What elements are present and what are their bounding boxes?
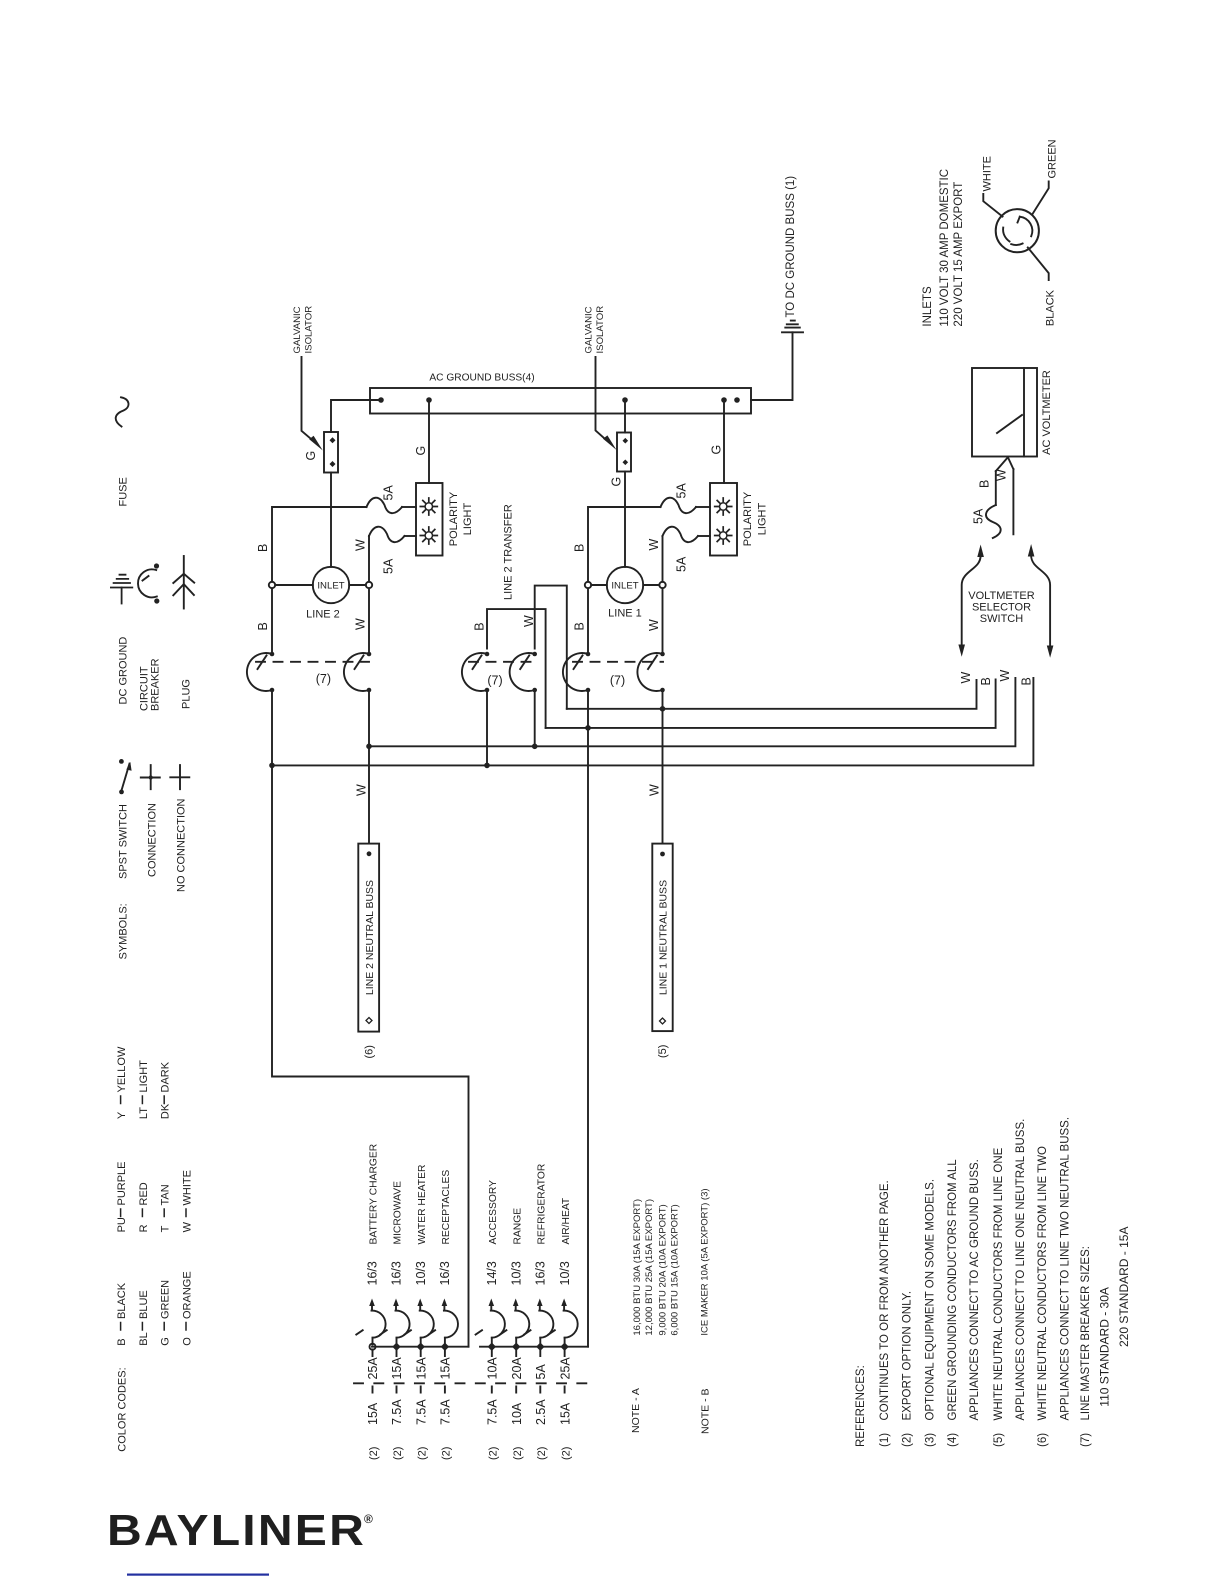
svg-text:2.5A: 2.5A <box>534 1399 548 1425</box>
lead BLACK <box>1028 248 1049 281</box>
fuse F1 <box>367 498 403 513</box>
svg-text:DC GROUND: DC GROUND <box>117 637 129 705</box>
AC ground buss(4) <box>370 388 751 414</box>
svg-text:LINE 1 NEUTRAL BUSS: LINE 1 NEUTRAL BUSS <box>658 880 670 995</box>
node dots on buses <box>269 706 665 768</box>
svg-text:G: G <box>414 446 428 456</box>
svg-text:W: W <box>354 539 368 551</box>
bus line D (B line2) <box>272 678 1033 765</box>
svg-text:W: W <box>647 619 661 631</box>
svg-text:110 VOLT 30 AMP DOMESTIC: 110 VOLT 30 AMP DOMESTIC <box>939 169 951 327</box>
inlet LINE 2 terminals <box>269 582 275 588</box>
svg-text:20A: 20A <box>510 1357 524 1380</box>
svg-text:GREEN GROUNDING CONDUCTORS FRO: GREEN GROUNDING CONDUCTORS FROM ALL <box>947 1159 959 1421</box>
svg-text:110 STANDARD - 30A: 110 STANDARD - 30A <box>1098 1287 1112 1407</box>
svg-text:TO DC GROUND BUSS (1): TO DC GROUND BUSS (1) <box>785 176 797 318</box>
svg-text:CONTINUES TO OR FROM ANOTHER P: CONTINUES TO OR FROM ANOTHER PAGE. <box>879 1180 891 1420</box>
svg-text:ISOLATOR: ISOLATOR <box>595 306 606 354</box>
svg-text:W: W <box>522 615 536 627</box>
svg-text:WHITE: WHITE <box>181 1170 193 1205</box>
svg-text:SWITCH: SWITCH <box>980 613 1023 625</box>
svg-text:16/3: 16/3 <box>534 1261 548 1285</box>
ground symbol to DC ground buss <box>782 321 803 333</box>
svg-text:B: B <box>573 544 587 552</box>
breaker microwave <box>380 1299 409 1345</box>
wire G: buss to polarity light 1 <box>428 400 430 483</box>
wire: isolator2 to buss <box>624 400 626 433</box>
svg-text:NO CONNECTION: NO CONNECTION <box>175 798 187 892</box>
svg-text:NOTE - A: NOTE - A <box>630 1388 642 1433</box>
breaker CB-Bt <box>462 652 489 693</box>
manifold taps <box>370 1344 376 1350</box>
svg-text:(1): (1) <box>879 1433 891 1447</box>
svg-text:AC GROUND BUSS(4): AC GROUND BUSS(4) <box>429 373 534 384</box>
svg-text:(2): (2) <box>902 1433 914 1447</box>
wire B from voltmeter <box>995 471 997 505</box>
wire B line1 lower <box>587 588 589 654</box>
svg-text:GALVANIC: GALVANIC <box>584 306 595 353</box>
breaker CB-B1 <box>563 652 590 693</box>
svg-text:®: ® <box>364 1512 373 1526</box>
galvanic isolator 2 <box>617 433 631 472</box>
svg-text:10A: 10A <box>510 1402 524 1425</box>
svg-text:5A: 5A <box>382 485 396 501</box>
svg-text:W: W <box>647 539 661 551</box>
svg-text:PU: PU <box>116 1217 128 1232</box>
svg-text:W: W <box>354 784 368 796</box>
svg-text:WHITE: WHITE <box>982 156 994 191</box>
svg-text:(6): (6) <box>1037 1433 1049 1447</box>
svg-text:B: B <box>978 480 992 488</box>
galvanic isolator 1 <box>324 432 338 473</box>
load manifold group 1 <box>372 1346 469 1348</box>
wire: isolator2 to inlet line1 <box>624 472 626 567</box>
load name labels <box>369 1144 572 1245</box>
svg-text:PURPLE: PURPLE <box>116 1161 128 1205</box>
svg-text:16/3: 16/3 <box>390 1261 404 1285</box>
svg-text:ACCESSORY: ACCESSORY <box>488 1180 499 1245</box>
svg-text:T: T <box>160 1225 172 1232</box>
svg-text:WHITE NEUTRAL CONDUCTORS FROM: WHITE NEUTRAL CONDUCTORS FROM LINE TWO <box>1037 1146 1049 1421</box>
svg-text:APPLIANCES CONNECT TO LINE ONE: APPLIANCES CONNECT TO LINE ONE NEUTRAL B… <box>1015 1119 1027 1421</box>
svg-text:RECEPTACLES: RECEPTACLES <box>441 1170 452 1245</box>
svg-text:G: G <box>304 451 318 461</box>
svg-text:SYMBOLS:: SYMBOLS: <box>117 903 129 959</box>
svg-text:INLET: INLET <box>611 581 638 592</box>
leader arrow galvanic isolator 2 <box>596 357 617 450</box>
svg-text:WATER HEATER: WATER HEATER <box>417 1165 428 1245</box>
bus line C (W line2) <box>369 678 1015 746</box>
svg-text:BATTERY CHARGER: BATTERY CHARGER <box>369 1144 380 1245</box>
svg-text:10/3: 10/3 <box>509 1261 523 1285</box>
svg-text:GREEN: GREEN <box>160 1280 172 1319</box>
svg-text:G: G <box>610 477 624 487</box>
lamp L1a <box>420 498 437 515</box>
legend: no connection symbol <box>170 765 189 789</box>
line 2 neutral buss <box>358 844 379 1032</box>
breaker battery charger <box>356 1299 385 1345</box>
svg-text:APPLIANCES CONNECT TO LINE TWO: APPLIANCES CONNECT TO LINE TWO NEUTRAL B… <box>1059 1117 1071 1421</box>
lead WHITE <box>983 194 1002 217</box>
amp ratings row 2 <box>366 1399 572 1425</box>
svg-text:BREAKER: BREAKER <box>150 658 162 711</box>
wire B line1 upper + fuse to polarity light 2 <box>588 507 661 582</box>
svg-text:B: B <box>256 544 270 552</box>
color codes group 1 <box>116 1271 193 1345</box>
svg-text:O: O <box>181 1337 193 1346</box>
svg-text:16,000 BTU 30A (15A EXPORT): 16,000 BTU 30A (15A EXPORT) <box>632 1199 643 1336</box>
svg-text:POLARITY: POLARITY <box>742 491 754 546</box>
line 1 neutral buss <box>652 844 672 1032</box>
bus line B (B line1) <box>546 680 996 728</box>
breaker accessory <box>476 1299 505 1345</box>
NOTE - B block <box>699 1188 711 1434</box>
svg-text:16/3: 16/3 <box>438 1261 452 1285</box>
svg-text:(7): (7) <box>316 672 331 686</box>
svg-text:INLET: INLET <box>317 581 344 592</box>
wire transfer W upper <box>535 586 567 709</box>
svg-text:REFRIGERATOR: REFRIGERATOR <box>537 1164 548 1245</box>
svg-text:B: B <box>116 1338 128 1345</box>
svg-text:(2): (2) <box>560 1447 572 1460</box>
svg-text:(7): (7) <box>610 674 625 688</box>
svg-text:W: W <box>354 618 368 630</box>
color code dashes group2 <box>121 1209 186 1217</box>
svg-text:PLUG: PLUG <box>181 679 193 709</box>
wire transfer B lower to bus D <box>486 690 488 765</box>
wire transfer B upper <box>487 609 546 728</box>
svg-text:BL: BL <box>138 1332 150 1345</box>
svg-text:REFERENCES:: REFERENCES: <box>855 1365 867 1447</box>
svg-text:OPTIONAL EQUIPMENT ON SOME MOD: OPTIONAL EQUIPMENT ON SOME MODELS. <box>925 1179 937 1421</box>
breaker CB-Wt <box>510 652 537 693</box>
lamp L2a <box>715 498 732 515</box>
svg-text:(2): (2) <box>392 1447 404 1460</box>
svg-text:10A: 10A <box>486 1357 500 1380</box>
svg-text:B: B <box>979 677 993 685</box>
svg-text:BLUE: BLUE <box>138 1290 150 1319</box>
svg-text:5A: 5A <box>675 556 689 572</box>
svg-text:5A: 5A <box>382 558 396 574</box>
svg-text:220 VOLT 15 AMP EXPORT: 220 VOLT 15 AMP EXPORT <box>953 182 965 327</box>
fuse F3 <box>661 498 697 513</box>
breaker range <box>500 1299 529 1345</box>
svg-text:10/3: 10/3 <box>414 1261 428 1285</box>
svg-text:6,000 BTU 15A (10A EXPORT): 6,000 BTU 15A (10A EXPORT) <box>670 1204 681 1335</box>
svg-text:EXPORT OPTION ONLY.: EXPORT OPTION ONLY. <box>902 1291 914 1421</box>
svg-text:(2): (2) <box>416 1447 428 1460</box>
svg-text:ICE MAKER 10A (5A EXPORT) (3): ICE MAKER 10A (5A EXPORT) (3) <box>699 1188 710 1335</box>
svg-text:LINE MASTER BREAKER SIZES:: LINE MASTER BREAKER SIZES: <box>1080 1246 1092 1420</box>
svg-text:LT: LT <box>138 1107 150 1119</box>
wire: isolator1 to buss <box>331 400 378 432</box>
svg-text:BLACK: BLACK <box>1045 289 1057 326</box>
svg-text:GALVANIC: GALVANIC <box>292 306 303 353</box>
svg-text:9,000 BTU 20A (10A EXPORT): 9,000 BTU 20A (10A EXPORT) <box>657 1204 668 1335</box>
svg-text:RED: RED <box>138 1182 150 1205</box>
svg-text:GREEN: GREEN <box>1047 139 1059 178</box>
svg-text:ISOLATOR: ISOLATOR <box>304 306 315 354</box>
svg-text:10/3: 10/3 <box>558 1261 572 1285</box>
svg-text:SELECTOR: SELECTOR <box>972 602 1031 614</box>
inlet connector inner slots <box>1003 217 1032 245</box>
svg-text:CONNECTION: CONNECTION <box>146 803 158 877</box>
svg-text:VOLTMETER: VOLTMETER <box>968 590 1034 602</box>
svg-text:LIGHT: LIGHT <box>757 503 769 536</box>
svg-text:SPST SWITCH: SPST SWITCH <box>117 804 129 879</box>
svg-text:(2): (2) <box>488 1447 500 1460</box>
fuse F2 <box>369 527 405 542</box>
svg-text:5A: 5A <box>971 508 985 524</box>
svg-text:G: G <box>160 1337 172 1346</box>
breaker refrigerator <box>524 1299 553 1345</box>
svg-text:BAYLINER: BAYLINER <box>107 1506 366 1555</box>
svg-text:FUSE: FUSE <box>117 477 129 506</box>
svg-text:(7): (7) <box>487 674 502 688</box>
svg-text:14/3: 14/3 <box>485 1261 499 1285</box>
svg-text:25A: 25A <box>366 1357 380 1380</box>
color code dashes group1 <box>121 1323 186 1331</box>
breaker CB-W2 <box>344 652 371 693</box>
load manifold group 2 <box>480 1346 588 1348</box>
vertical tie dashes at load columns <box>373 1350 565 1393</box>
svg-text:15A: 15A <box>558 1402 572 1425</box>
wire W line2 upper + fuse 5A to polarity light 1 <box>368 536 370 582</box>
color codes group 2 <box>116 1161 193 1232</box>
legend: fuse symbol <box>116 397 129 426</box>
svg-text:(5): (5) <box>993 1433 1005 1447</box>
legend: SPST switch symbol <box>119 759 132 794</box>
svg-text:(5): (5) <box>657 1045 669 1058</box>
wire W from voltmeter <box>1012 469 1014 534</box>
wire: ground lead from buss <box>751 332 793 400</box>
blue footer line <box>127 1574 269 1576</box>
wire W2 to line2 neutral buss <box>368 690 370 844</box>
inlet LINE 2 receptacle <box>313 567 349 603</box>
leader arrow galvanic isolator 1 <box>302 357 323 451</box>
svg-text:INLETS: INLETS <box>922 286 934 327</box>
svg-text:APPLIANCES CONNECT TO AC GROUN: APPLIANCES CONNECT TO AC GROUND BUSS. <box>969 1159 981 1420</box>
svg-text:AIR/HEAT: AIR/HEAT <box>561 1197 572 1244</box>
node: buss junction dots <box>378 397 740 403</box>
polarity light box 2 <box>710 483 737 556</box>
shore inlet connector circle <box>996 209 1039 252</box>
svg-text:NOTE - B: NOTE - B <box>700 1388 712 1434</box>
wire B1 feed to load group 2 <box>587 690 589 1347</box>
wire B line2 lower <box>271 588 273 654</box>
NOTE - A block <box>630 1199 681 1433</box>
svg-text:BLACK: BLACK <box>116 1282 128 1319</box>
dashed breaker tie lines <box>256 661 663 663</box>
selector switch arrows top <box>977 545 984 558</box>
svg-text:W: W <box>995 469 1009 481</box>
wire W line2 lower <box>368 588 370 654</box>
legend: connection symbol <box>141 765 160 789</box>
svg-text:(3): (3) <box>925 1433 937 1447</box>
color code dashes group3 <box>121 1096 165 1104</box>
svg-text:LINE 2: LINE 2 <box>306 609 340 621</box>
legend: plug symbol <box>173 556 194 609</box>
svg-text:15A: 15A <box>366 1402 380 1425</box>
legend: circuit breaker symbol <box>138 563 159 603</box>
selector switch wire left <box>962 556 981 646</box>
svg-text:TAN: TAN <box>160 1184 172 1205</box>
wire W1 to line1 neutral buss <box>662 690 664 844</box>
svg-text:RANGE: RANGE <box>512 1208 523 1245</box>
svg-text:7.5A: 7.5A <box>414 1399 428 1425</box>
svg-text:AC VOLTMETER: AC VOLTMETER <box>1041 370 1053 455</box>
REFERENCES block <box>855 1117 1131 1447</box>
wire G: buss to polarity light 2 <box>723 400 725 483</box>
svg-text:WHITE NEUTRAL CONDUCTORS FROM: WHITE NEUTRAL CONDUCTORS FROM LINE ONE <box>993 1147 1005 1420</box>
svg-text:POLARITY: POLARITY <box>448 491 460 546</box>
svg-text:W: W <box>959 672 973 684</box>
wire W line1 upper + fuse to polarity light 2 <box>662 536 664 582</box>
svg-text:(2): (2) <box>441 1447 453 1460</box>
lamp L2b <box>715 527 732 544</box>
svg-text:LIGHT: LIGHT <box>462 503 474 536</box>
bus line A (W line1) <box>567 680 977 709</box>
load gauge labels <box>366 1261 572 1285</box>
wire W line1 lower <box>662 588 664 654</box>
svg-text:(7): (7) <box>1080 1433 1092 1447</box>
svg-text:LINE 2 NEUTRAL BUSS: LINE 2 NEUTRAL BUSS <box>364 880 376 995</box>
svg-text:7.5A: 7.5A <box>390 1399 404 1425</box>
svg-text:7.5A: 7.5A <box>486 1399 500 1425</box>
svg-text:Y: Y <box>116 1111 128 1119</box>
lamp L1b <box>420 527 437 544</box>
svg-text:R: R <box>138 1224 150 1232</box>
wire transfer W lower to bus C <box>534 690 536 746</box>
svg-text:7.5A: 7.5A <box>439 1399 453 1425</box>
svg-text:DARK: DARK <box>160 1061 172 1092</box>
breaker water heater <box>405 1299 434 1345</box>
svg-text:MICROWAVE: MICROWAVE <box>393 1181 404 1245</box>
selector switch wire right <box>1031 556 1050 647</box>
svg-text:5A: 5A <box>675 483 689 499</box>
svg-text:(6): (6) <box>363 1045 375 1058</box>
svg-text:W: W <box>181 1221 193 1232</box>
svg-text:ORANGE: ORANGE <box>181 1271 193 1319</box>
svg-text:(4): (4) <box>947 1433 959 1447</box>
breaker receptacles <box>429 1299 458 1345</box>
wire B2 feed to load group 1 <box>272 690 469 1347</box>
breaker CB-W1 <box>637 652 664 693</box>
svg-text:15A: 15A <box>390 1357 404 1380</box>
svg-text:(2): (2) <box>368 1447 380 1460</box>
svg-text:W: W <box>648 784 662 796</box>
lead GREEN <box>1032 181 1049 214</box>
voltmeter needle <box>997 415 1022 433</box>
svg-text:LINE 2 TRANSFER: LINE 2 TRANSFER <box>503 504 515 600</box>
amp ratings row 1 <box>366 1357 572 1380</box>
svg-text:DK: DK <box>160 1103 172 1119</box>
voltmeter plug arch <box>996 457 1014 471</box>
fuse F4 <box>663 527 699 542</box>
svg-text:G: G <box>710 445 724 455</box>
fuse F5 5A voltmeter <box>986 505 1001 538</box>
svg-text:12,000 BTU 25A (15A EXPORT): 12,000 BTU 25A (15A EXPORT) <box>644 1199 655 1336</box>
svg-text:15A: 15A <box>439 1357 453 1380</box>
inlet LINE 1 receptacle <box>607 567 643 603</box>
svg-text:W: W <box>998 670 1012 682</box>
breaker air/heat <box>548 1299 577 1345</box>
wire: isolator1 to inlet line2 <box>330 473 332 567</box>
svg-text:YELLOW: YELLOW <box>116 1046 128 1092</box>
AC voltmeter box <box>972 368 1037 457</box>
svg-text:COLOR CODES:: COLOR CODES: <box>116 1367 128 1451</box>
svg-text:B: B <box>1020 677 1034 685</box>
svg-text:B: B <box>473 622 487 630</box>
breaker CB-B2 <box>247 652 274 693</box>
svg-text:LIGHT: LIGHT <box>138 1060 150 1093</box>
svg-text:25A: 25A <box>558 1357 572 1380</box>
svg-text:16/3: 16/3 <box>366 1261 380 1285</box>
svg-text:5A: 5A <box>534 1364 548 1380</box>
polarity light box 1 <box>416 483 443 556</box>
qty (2) row <box>368 1447 572 1460</box>
svg-text:15A: 15A <box>414 1357 428 1380</box>
dashed amp tie line <box>354 1382 592 1384</box>
svg-text:B: B <box>256 622 270 630</box>
svg-text:B: B <box>573 622 587 630</box>
svg-text:(2): (2) <box>536 1447 548 1460</box>
color codes group 3 <box>116 1046 172 1119</box>
svg-text:(2): (2) <box>512 1447 524 1460</box>
svg-text:LINE 1: LINE 1 <box>608 608 642 620</box>
inlet LINE 1 terminals <box>585 582 591 588</box>
svg-text:220 STANDARD - 15A: 220 STANDARD - 15A <box>1117 1227 1131 1348</box>
wire B line2 upper + fuse 5A to polarity light 1 <box>272 507 367 582</box>
legend: dc ground symbol <box>111 575 132 604</box>
